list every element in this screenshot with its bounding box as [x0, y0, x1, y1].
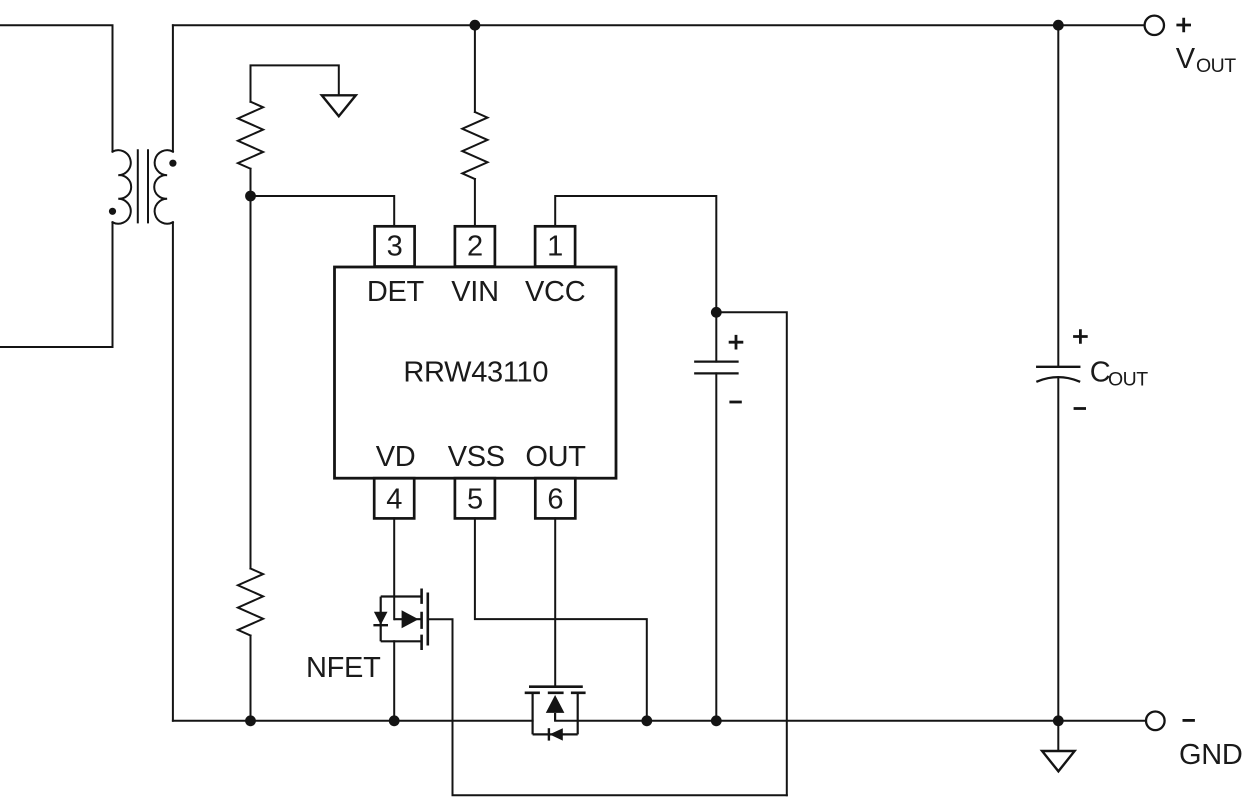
svg-text:OUT: OUT	[1196, 55, 1236, 77]
IC U1 RRW43110 body	[335, 267, 617, 478]
C1 minus polarity	[729, 401, 741, 404]
Q2 body diode triangle	[550, 728, 563, 740]
pin 5 box	[455, 478, 495, 518]
pin 1 box	[535, 226, 575, 266]
wire bottom rail right section	[555, 720, 1145, 722]
svg-text:NFET: NFET	[306, 652, 381, 684]
wire R2 bottom to ground rail	[250, 636, 252, 721]
svg-text:4: 4	[386, 483, 402, 515]
pin 4 box	[374, 478, 414, 518]
wire NFET source to ground rail	[393, 641, 395, 721]
resistor R1	[238, 102, 263, 169]
junction node rail / C1 bottom	[711, 715, 722, 726]
wire secondary top to top rail	[172, 25, 174, 151]
wire primary bottom to left edge	[0, 222, 113, 347]
junction node top rail / COUT	[1053, 20, 1064, 31]
transformer T1 primary phase dot	[109, 208, 116, 215]
C1 plus polarity	[729, 335, 744, 350]
junction node top rail / R3	[470, 20, 481, 31]
terminal VOUT	[1145, 16, 1164, 35]
ground arrow top	[322, 95, 356, 116]
junction node VCC / C1	[711, 307, 722, 318]
wire COUT bottom to ground rail	[1057, 378, 1059, 721]
transformer T1 core	[138, 150, 148, 222]
svg-text:5: 5	[467, 483, 483, 515]
wire pin 4 VD to NFET	[393, 518, 395, 619]
Q1 body arrow stem	[394, 618, 421, 620]
Q1 channel segments	[420, 589, 423, 651]
pin 3 box	[375, 226, 415, 266]
Q1 body diode triangle	[374, 612, 388, 625]
svg-text:GND: GND	[1179, 739, 1243, 771]
Q1 body arrow head	[402, 610, 419, 628]
COUT minus polarity	[1074, 407, 1086, 410]
Q2 body arrow stem	[554, 713, 556, 721]
Q2 body diode cathode bar	[548, 728, 550, 740]
junction node rail / NFET source	[389, 715, 400, 726]
svg-text:RRW43110: RRW43110	[403, 356, 548, 388]
wire secondary bottom to ground rail	[172, 222, 174, 721]
Q2 body arrow head	[546, 695, 565, 713]
VOUT plus polarity	[1176, 18, 1191, 33]
terminal GND	[1146, 712, 1165, 731]
wire divider node down to R2	[250, 196, 252, 569]
svg-text:3: 3	[387, 231, 403, 263]
wire divider node to pin 3 DET	[251, 196, 395, 226]
Q1 body-diode branch	[380, 597, 382, 642]
resistor R3	[462, 112, 487, 179]
svg-text:VCC: VCC	[525, 276, 585, 308]
svg-text:VSS: VSS	[448, 441, 505, 473]
GND minus polarity	[1183, 719, 1195, 722]
wire top rail to COUT top	[1057, 25, 1059, 367]
Q2 right leg	[577, 693, 579, 735]
resistor R2	[238, 569, 263, 636]
svg-text:V: V	[1176, 43, 1196, 75]
Q1 body diode cathode bar	[373, 624, 388, 626]
svg-text:VIN: VIN	[451, 276, 498, 308]
svg-text:6: 6	[547, 483, 563, 515]
Q2 channel segments	[525, 691, 586, 694]
junction node rail / R2	[245, 715, 256, 726]
Q1 gate bar	[426, 593, 429, 646]
wire pin 1 VCC to C1 node	[555, 196, 716, 312]
pin 6 box	[535, 478, 575, 518]
transistor Q1 NFET	[381, 597, 422, 642]
Q2 bottom diode loop	[533, 733, 578, 735]
Q1 source bar	[381, 640, 422, 642]
transistor Q2	[533, 693, 578, 735]
wire C1 node to right loop	[716, 312, 787, 795]
transformer T1 secondary winding	[154, 150, 173, 223]
wire R1 bottom to divider node	[250, 169, 252, 196]
wire C1 node to C1 top plate	[715, 312, 717, 361]
COUT plus polarity	[1073, 329, 1088, 344]
wire bottom rail left section	[173, 720, 533, 722]
capacitor COUT	[1037, 367, 1079, 382]
junction node rail / COUT bottom	[1053, 715, 1064, 726]
wire top rail to R3	[474, 25, 476, 112]
wire top rail to VOUT	[173, 24, 1145, 26]
junction node divider	[245, 191, 256, 202]
ground symbol bottom right	[1042, 751, 1075, 771]
svg-text:OUT: OUT	[1108, 369, 1148, 391]
wire R1 top to arrow	[251, 65, 339, 101]
svg-text:1: 1	[547, 231, 563, 263]
svg-text:OUT: OUT	[525, 441, 586, 473]
wire pin 6 OUT to Q2 gate	[554, 518, 556, 686]
wire pin 5 VSS to ground rail	[475, 518, 647, 720]
wire top-left input to primary	[0, 25, 113, 151]
capacitor C1	[695, 362, 737, 374]
Q2 left leg	[531, 693, 533, 735]
svg-text:2: 2	[467, 231, 483, 263]
wire C1 bottom to ground rail	[715, 373, 717, 720]
wire NFET gate loop to right loop	[428, 619, 787, 795]
wire R3 bottom to pin 2 VIN	[474, 179, 476, 226]
Q1 drain bar	[381, 595, 422, 597]
svg-text:DET: DET	[367, 276, 425, 308]
wire ground rail to GND symbol	[1057, 721, 1059, 751]
pin 2 box	[455, 226, 495, 266]
Q2 gate bar	[529, 685, 583, 688]
junction node rail / VSS	[641, 715, 652, 726]
transformer T1 secondary phase dot	[169, 160, 176, 167]
transformer T1 primary winding	[113, 150, 132, 223]
svg-text:VD: VD	[376, 441, 416, 473]
